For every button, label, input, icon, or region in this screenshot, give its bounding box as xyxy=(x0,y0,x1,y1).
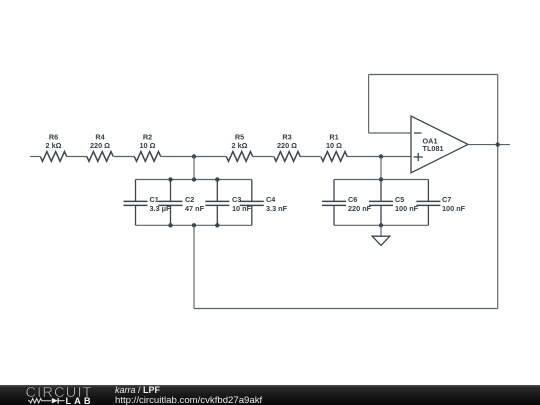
wire output horizontal xyxy=(468,144,510,146)
wire R6-R4 xyxy=(67,156,88,158)
label C5 100 nF xyxy=(395,195,419,213)
svg-text:karra / LPF: karra / LPF xyxy=(115,385,161,395)
label R5 2 kΩ xyxy=(232,132,248,150)
label R3 220 Ω xyxy=(277,132,297,150)
node output junction xyxy=(496,142,500,146)
svg-text:C2: C2 xyxy=(185,195,194,204)
wire feedback top horizontal xyxy=(369,74,498,76)
svg-text:100 nF: 100 nF xyxy=(442,204,466,213)
svg-text:220 Ω: 220 Ω xyxy=(90,141,110,150)
wire C-bank 1 top rail xyxy=(136,179,252,181)
capacitor C7 xyxy=(416,180,440,226)
label R4 220 Ω xyxy=(90,132,110,150)
svg-text:220 Ω: 220 Ω xyxy=(277,141,297,150)
CircuitLab logo wordmark LAB xyxy=(66,396,92,405)
capacitor C5 xyxy=(369,180,393,226)
label R6 2 kΩ xyxy=(46,132,62,150)
node C-bank2 junctions xyxy=(379,177,383,227)
capacitor C3 xyxy=(205,180,229,226)
wire R4-R2 xyxy=(114,156,135,158)
svg-text:3.3 nF: 3.3 nF xyxy=(266,204,288,213)
wire node B down to C-bank 2 xyxy=(380,157,382,180)
svg-text:10 Ω: 10 Ω xyxy=(326,141,342,150)
label C2 47 nF xyxy=(185,195,205,213)
svg-text:http://circuitlab.com/cvkfbd27: http://circuitlab.com/cvkfbd27a9akf xyxy=(115,395,263,405)
wire R5-R3 xyxy=(253,156,274,158)
wire node A down to C-bank 1 xyxy=(193,157,195,180)
svg-text:LAB: LAB xyxy=(66,396,92,405)
wire R2-R5 through node A xyxy=(161,156,227,158)
wire bottom feedback horizontal xyxy=(194,308,498,310)
wire op-amp inverting input stub xyxy=(369,132,411,134)
label C4 3.3 nF xyxy=(266,195,288,213)
footer title karra / LPF xyxy=(115,385,161,395)
wire R3-R1 xyxy=(300,156,321,158)
wire feedback right vertical down to bottom rail xyxy=(497,75,499,309)
wire C-bank 1 bottom rail xyxy=(136,224,252,226)
label C7 100 nF xyxy=(442,195,466,213)
label R2 10 Ω xyxy=(140,132,156,150)
svg-text:C4: C4 xyxy=(266,195,276,204)
svg-text:C6: C6 xyxy=(348,195,357,204)
wire R1 to op-amp + input through node B xyxy=(347,156,411,158)
capacitor C4 xyxy=(240,180,264,226)
node A junction xyxy=(192,154,196,158)
svg-text:TL081: TL081 xyxy=(423,144,444,153)
wire feedback left vertical xyxy=(368,75,370,134)
capacitor C2 xyxy=(159,180,183,226)
capacitor C1 xyxy=(124,180,148,226)
svg-text:220 nF: 220 nF xyxy=(348,204,372,213)
resistor R4 xyxy=(87,152,113,162)
CircuitLab logo diode xyxy=(52,398,65,404)
svg-text:47 nF: 47 nF xyxy=(185,204,205,213)
label R1 10 Ω xyxy=(326,132,342,150)
wire C-bank1 bottom to bottom rail xyxy=(193,225,195,308)
wire input left lead xyxy=(30,156,40,158)
label C3 10 nF xyxy=(232,195,252,213)
resistor R3 xyxy=(274,152,300,162)
resistor R6 xyxy=(40,152,66,162)
svg-text:2 kΩ: 2 kΩ xyxy=(46,141,62,150)
resistor R1 xyxy=(321,152,347,162)
capacitor C6 xyxy=(322,180,346,226)
node C-bank1 top junctions xyxy=(168,177,219,181)
svg-text:C1: C1 xyxy=(150,195,159,204)
svg-text:C5: C5 xyxy=(395,195,404,204)
op-amp OA1 xyxy=(411,116,468,173)
svg-text:2 kΩ: 2 kΩ xyxy=(232,141,248,150)
svg-text:C7: C7 xyxy=(442,195,451,204)
label OA1 TL081 xyxy=(423,137,444,153)
CircuitLab logo wordmark CIRCUIT xyxy=(26,385,92,401)
svg-text:C3: C3 xyxy=(232,195,241,204)
label C6 220 nF xyxy=(348,195,372,213)
svg-text:10 Ω: 10 Ω xyxy=(140,141,156,150)
node C-bank1 bottom junctions xyxy=(168,223,219,227)
CircuitLab logo resistor squiggle xyxy=(28,398,51,403)
resistor R5 xyxy=(226,152,252,162)
svg-text:100 nF: 100 nF xyxy=(395,204,419,213)
wire C-bank 2 bottom rail xyxy=(334,224,428,226)
ground xyxy=(372,225,390,245)
footer url xyxy=(115,395,263,405)
resistor R2 xyxy=(134,152,160,162)
wire C-bank 2 top rail xyxy=(334,179,428,181)
node B junction xyxy=(379,154,383,158)
label C1 3.3 μF xyxy=(150,195,172,213)
